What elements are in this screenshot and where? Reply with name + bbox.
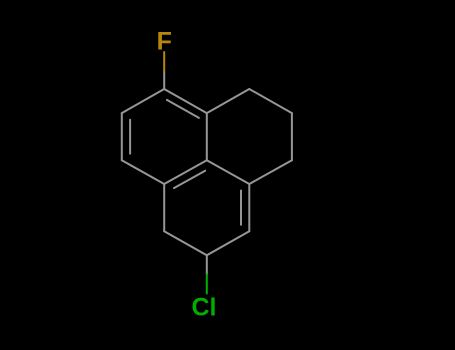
wire ring A edge V2-V3 xyxy=(121,113,123,160)
wire ring C edge V6-C1 xyxy=(207,89,250,113)
wire ring A edge V3-V4 xyxy=(122,160,164,184)
double bond inner line V4=V5 xyxy=(174,171,205,188)
wire ring C edge C2-C3 xyxy=(291,113,293,160)
wire ring A edge V5-V6 xyxy=(206,113,208,160)
double bond inner line V2=V3 xyxy=(129,120,131,154)
wire ring B edge B1-V5 xyxy=(207,160,250,184)
wire ring B edge B2-B1 xyxy=(248,184,250,231)
bond F half (goldenrod) xyxy=(163,52,165,71)
wire ring B edge B3-B2 xyxy=(207,231,250,255)
wire ring B edge B4-B3 xyxy=(164,231,207,255)
bond C-Cl carbon half xyxy=(206,255,208,274)
double bond inner line V1=V6 xyxy=(167,100,199,118)
bond C-F carbon half xyxy=(163,71,165,89)
wire ring C edge C1-C2 xyxy=(249,89,292,113)
wire ring A edge V6-V1 xyxy=(164,89,207,113)
wire ring A edge V1-V2 xyxy=(122,89,164,113)
svg-text:F: F xyxy=(157,27,172,55)
wire ring B edge V4-B4 xyxy=(163,184,165,231)
bond Cl half (green) xyxy=(206,275,208,294)
wire ring A edge V4-V5 xyxy=(164,160,207,184)
double bond inner line B1=B2 xyxy=(240,191,242,225)
svg-text:Cl: Cl xyxy=(192,293,217,321)
wire ring C edge C3-B1 xyxy=(249,160,292,184)
